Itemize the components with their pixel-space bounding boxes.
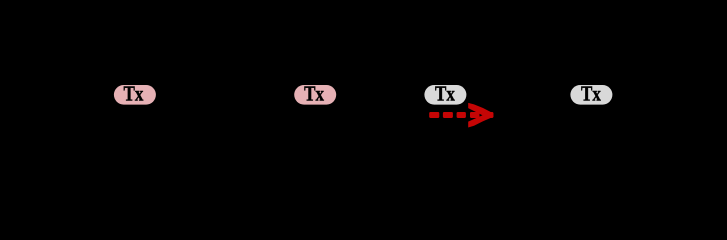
transformer block Tx (stage 2, trainable/pink pill): [294, 83, 336, 106]
shaft dash 5 (merges into arrowhead): [483, 112, 493, 118]
transformer block Tx (stage 3, frozen/gray pill): [424, 83, 466, 106]
red dashed copy arrow: shaft dash 1: [429, 112, 439, 118]
svg-text:Tx: Tx: [123, 83, 143, 106]
shaft dash 3: [457, 112, 466, 118]
transformer block Tx (stage 4, frozen/gray pill): [570, 83, 612, 106]
shaft dash 4: [470, 112, 480, 118]
transformer block Tx (stage 1, trainable/pink pill): [114, 83, 156, 106]
svg-text:Tx: Tx: [435, 83, 455, 106]
red chevron arrowhead: [468, 103, 493, 128]
svg-text:Tx: Tx: [304, 83, 324, 106]
svg-text:Tx: Tx: [581, 83, 601, 106]
shaft dash 2: [443, 112, 453, 118]
